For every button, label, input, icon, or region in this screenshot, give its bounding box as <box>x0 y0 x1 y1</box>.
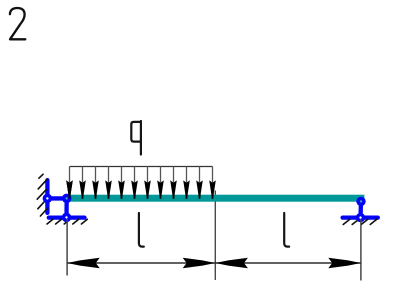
support B (roller, right): link <box>358 201 363 217</box>
first load arrow overlapping pin (redraw on top) <box>66 180 73 199</box>
support A (pinned, left): wall <box>45 180 49 213</box>
extension line right <box>360 219 362 281</box>
support A: ground line <box>49 215 85 219</box>
support B ground hatching <box>343 219 377 224</box>
node B extension line (mid-span, under beam) <box>214 191 216 281</box>
support A: lower pin <box>62 213 72 223</box>
distributed load q: top line <box>70 166 213 168</box>
extension line left <box>66 219 68 276</box>
label q (distributed load) <box>131 121 141 155</box>
support B: upper pin <box>356 197 365 206</box>
dimension arrow right-out <box>328 258 361 268</box>
dimension arrow mid-right <box>215 258 248 268</box>
support A: horizontal link <box>47 196 66 200</box>
label 2 (scheme number) <box>10 8 25 39</box>
label l (right span) <box>284 213 289 247</box>
dimension arrow mid-left <box>183 258 216 268</box>
dimension arrow left-out <box>67 258 100 268</box>
dimension line <box>67 262 361 264</box>
support A ground hatching <box>47 219 87 224</box>
support B: lower pin <box>356 213 365 222</box>
support A wall hatching <box>37 174 48 216</box>
label l (left span) <box>139 213 144 247</box>
support A: vertical link <box>64 198 68 217</box>
beam <box>67 195 365 202</box>
distributed load q: arrows <box>66 167 216 199</box>
support B: ground line <box>343 215 378 219</box>
support A: beam pin <box>62 194 72 204</box>
support A: wall pin <box>43 194 53 204</box>
